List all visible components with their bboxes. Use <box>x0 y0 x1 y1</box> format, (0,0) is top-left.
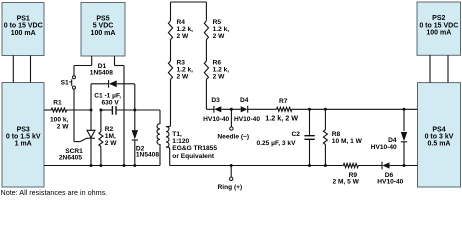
svg-text:0 to 1.5 kV: 0 to 1.5 kV <box>6 134 41 141</box>
svg-text:2 W: 2 W <box>177 33 189 40</box>
svg-text:0 to 15 VDC: 0 to 15 VDC <box>419 22 458 29</box>
svg-text:2 W: 2 W <box>213 74 225 81</box>
resistor R6 <box>204 61 208 80</box>
resistor R1 <box>51 108 66 112</box>
junction D4 bottom <box>403 164 406 167</box>
svg-text:10 M, 1 W: 10 M, 1 W <box>332 138 363 145</box>
svg-text:1N5408: 1N5408 <box>136 152 159 159</box>
power supply PS5 <box>81 3 125 57</box>
wire S1 to SCR1 gate <box>73 89 75 141</box>
junction node C (D1/D2) <box>133 109 136 112</box>
diode D3 <box>213 106 215 113</box>
svg-text:2N6405: 2N6405 <box>59 154 82 161</box>
svg-text:HV10-40: HV10-40 <box>377 178 403 185</box>
svg-text:HV10-40: HV10-40 <box>234 116 260 123</box>
junction C2 bottom <box>308 164 311 167</box>
wire PS5 left lead <box>91 56 93 66</box>
svg-text:1:120: 1:120 <box>172 138 189 145</box>
svg-text:D4: D4 <box>240 97 249 104</box>
wire D4 top <box>403 109 405 131</box>
wire R8 bottom <box>324 145 326 166</box>
svg-text:R3: R3 <box>177 60 186 67</box>
junction SCR1 cathode <box>90 164 93 167</box>
power supply PS3 <box>2 83 44 188</box>
wire top bridge <box>171 1 207 3</box>
svg-text:0.25 µF, 3 kV: 0.25 µF, 3 kV <box>257 140 297 147</box>
junction R8 top <box>324 108 327 111</box>
junction C2 top <box>308 108 311 111</box>
svg-text:1.2 k, 2 W: 1.2 k, 2 W <box>265 113 298 122</box>
svg-text:2 M, 5 W: 2 M, 5 W <box>333 178 360 185</box>
wire PS2 to PS4 right <box>447 55 449 82</box>
wire PS1 to PS3 left <box>12 56 14 83</box>
wire R5 to R6 <box>205 40 207 61</box>
svg-text:EG&G TR1855: EG&G TR1855 <box>172 145 217 152</box>
resistor R9 <box>343 163 358 167</box>
transformer T1 primary winding <box>157 110 160 166</box>
switch S1 <box>73 76 76 79</box>
svg-text:1N5408: 1N5408 <box>90 70 113 77</box>
node ring junction <box>230 164 233 167</box>
node needle junction <box>230 108 233 111</box>
wire D1 cathode branch <box>90 84 92 110</box>
svg-text:R8: R8 <box>332 131 341 138</box>
capacitor C2 <box>304 135 314 137</box>
wire PS2 to PS4 left <box>429 55 431 82</box>
wire node C to D2 <box>134 110 136 130</box>
power supply PS1 <box>2 3 44 56</box>
wire bridge to R5 <box>205 2 207 21</box>
wire D3 to D4 <box>221 108 240 110</box>
svg-text:0.5 mA: 0.5 mA <box>428 141 451 148</box>
resistor R5 <box>204 21 208 40</box>
svg-text:5 VDC: 5 VDC <box>93 23 114 30</box>
ring terminal <box>230 166 232 178</box>
wire D1 anode branch <box>134 84 136 110</box>
capacitor C1 <box>111 106 113 115</box>
svg-text:PS5: PS5 <box>96 16 109 23</box>
thyristor SCR1 (2N6405) <box>87 130 95 137</box>
svg-text:0 to 3 kV: 0 to 3 kV <box>425 134 454 141</box>
wire R9 to D6 <box>358 165 382 167</box>
junction D2 cathode <box>133 164 136 167</box>
junction PS5 return <box>123 164 126 167</box>
wire C2 top <box>309 109 311 135</box>
wire bridge to R4 <box>170 2 172 21</box>
svg-text:2 W: 2 W <box>105 140 117 147</box>
svg-text:100 mA: 100 mA <box>426 30 451 37</box>
diode D4 <box>241 106 248 112</box>
wire T1 secondary to ring line <box>170 165 344 167</box>
svg-text:PS1: PS1 <box>17 16 30 23</box>
wire PS3 to R1 <box>44 109 51 111</box>
resistor R8 <box>323 130 327 145</box>
wire R7 to PS4 <box>292 108 418 110</box>
wire PS1 to PS3 right <box>30 56 32 83</box>
svg-text:or Equivalent: or Equivalent <box>172 153 215 160</box>
svg-text:Note: All resistances are in o: Note: All resistances are in ohms. <box>1 188 108 197</box>
svg-text:PS3: PS3 <box>17 126 30 133</box>
junction node A (R1/D1/SCR1) <box>90 109 93 112</box>
svg-text:D3: D3 <box>211 97 220 104</box>
wire node B to C1 <box>101 109 112 111</box>
svg-text:PS2: PS2 <box>432 15 445 22</box>
wire R1 to node A <box>67 109 91 111</box>
wire C1 to T1 primary <box>116 109 160 111</box>
svg-text:R1: R1 <box>53 99 62 106</box>
diode D1 <box>91 83 109 85</box>
svg-text:2 W: 2 W <box>57 123 69 130</box>
svg-text:D4: D4 <box>388 137 397 144</box>
junction node B (R2/C1) <box>99 109 102 112</box>
junction D4 top <box>403 108 406 111</box>
svg-text:100 k,: 100 k, <box>50 116 69 123</box>
transformer T1 secondary winding <box>166 80 171 127</box>
svg-text:R2: R2 <box>105 126 114 133</box>
svg-text:2 W: 2 W <box>213 33 225 40</box>
svg-text:R4: R4 <box>177 19 186 26</box>
svg-text:1M,: 1M, <box>105 133 116 140</box>
wire PS3 to ground bus <box>44 165 160 167</box>
power supply PS4 <box>418 83 461 187</box>
svg-text:2 W: 2 W <box>177 74 189 81</box>
svg-text:1.2 k,: 1.2 k, <box>213 67 230 74</box>
power supply PS2 <box>417 2 461 55</box>
diode D4 output <box>401 132 407 141</box>
svg-text:R5: R5 <box>213 19 222 26</box>
svg-text:1.2 k,: 1.2 k, <box>177 26 194 33</box>
svg-text:100 mA: 100 mA <box>11 30 36 37</box>
svg-text:630 V: 630 V <box>102 99 120 106</box>
wire node A to SCR1 <box>90 110 92 130</box>
svg-text:Needle (−): Needle (−) <box>217 134 249 141</box>
junction R2 bottom <box>99 164 102 167</box>
resistor R3 <box>168 61 172 80</box>
svg-text:PS4: PS4 <box>432 126 445 133</box>
resistor R7 <box>277 107 292 111</box>
svg-text:S1: S1 <box>61 79 69 86</box>
svg-text:HV10-40: HV10-40 <box>203 116 229 123</box>
svg-text:0 to 15 VDC: 0 to 15 VDC <box>4 23 43 30</box>
wire R6 to needle line <box>205 80 207 110</box>
svg-text:R7: R7 <box>279 98 288 105</box>
svg-text:R6: R6 <box>213 60 222 67</box>
wire R2 to ground bus <box>100 147 102 166</box>
svg-text:1.2 k,: 1.2 k, <box>213 26 230 33</box>
resistor R2 <box>99 132 103 147</box>
wire C2 bottom <box>309 140 311 166</box>
wire D6 to PS4 <box>390 165 418 167</box>
svg-text:100 mA: 100 mA <box>91 30 116 37</box>
wire PS5 right lead <box>114 56 116 66</box>
wire node B to R2 <box>100 110 102 132</box>
svg-text:C2: C2 <box>292 131 301 138</box>
svg-text:T1,: T1, <box>172 131 182 138</box>
resistor R4 <box>168 21 172 40</box>
wire D4 to R7 <box>248 108 277 110</box>
wire R4 to R3 <box>170 40 172 61</box>
diode D6 <box>381 162 383 170</box>
junction R8 bottom <box>324 164 327 167</box>
needle terminal <box>230 109 232 127</box>
diode D2 <box>132 130 138 139</box>
svg-text:1 mA: 1 mA <box>15 141 32 148</box>
wire R8 top <box>324 109 326 129</box>
svg-text:1.2 k,: 1.2 k, <box>177 67 194 74</box>
svg-text:Ring (+): Ring (+) <box>218 184 243 191</box>
svg-text:HV10-40: HV10-40 <box>371 144 397 151</box>
